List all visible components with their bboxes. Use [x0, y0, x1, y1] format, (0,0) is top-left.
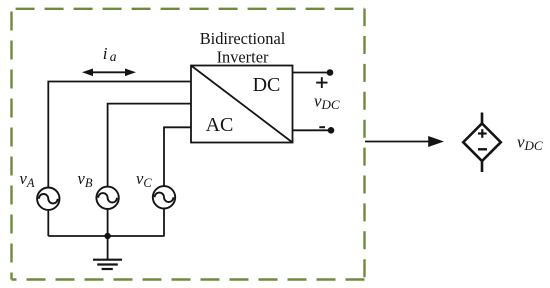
wire below source C: [163, 209, 165, 237]
inverter U1 diagonal: [191, 66, 293, 143]
current arrow i_a (double headed): [82, 69, 136, 77]
microgrid boundary dashed box : right edge: [363, 9, 365, 280]
junction node: [104, 233, 110, 239]
arrow from microgrid to equivalent source: [365, 136, 444, 147]
wire below source B: [107, 209, 109, 236]
wire phase B: [108, 104, 191, 187]
label - inside diamond: [478, 148, 487, 150]
source v_B circle: [96, 187, 118, 209]
svg-text:AC: AC: [206, 114, 234, 136]
svg-text:vDC: vDC: [517, 133, 543, 154]
dependent source v_DC diamond: [463, 113, 501, 173]
ground stem: [107, 236, 109, 260]
microgrid boundary dashed box : top edge: [12, 8, 365, 10]
svg-text:vDC: vDC: [314, 92, 340, 113]
node DC+ terminal: [327, 69, 334, 76]
wire DC- output: [293, 129, 332, 131]
inverter U1 box: [191, 66, 293, 143]
label: Bidirectional Inverter: [200, 29, 286, 66]
wire phase C: [164, 127, 191, 186]
label -: [319, 126, 325, 128]
svg-text:vA: vA: [20, 169, 35, 190]
svg-text:vC: vC: [136, 169, 152, 190]
svg-text:DC: DC: [253, 74, 281, 96]
label + inside diamond: [478, 129, 487, 138]
microgrid boundary dashed box : left edge: [10, 9, 12, 280]
wire DC+ output: [293, 72, 331, 74]
svg-text:a: a: [110, 49, 117, 64]
microgrid boundary dashed box : bottom edge: [12, 278, 365, 280]
ground symbol bars: [93, 260, 122, 269]
svg-text:Bidirectional: Bidirectional: [200, 29, 286, 48]
label +: [316, 77, 327, 88]
node DC- terminal: [328, 127, 335, 134]
neutral bus wire: [48, 235, 164, 237]
source v_A circle: [37, 188, 59, 210]
svg-text:i: i: [103, 44, 108, 63]
wire phase A: [48, 82, 191, 188]
source v_C circle: [153, 186, 175, 208]
svg-text:Inverter: Inverter: [217, 47, 269, 66]
svg-text:vB: vB: [78, 169, 93, 190]
wire below source A: [47, 210, 49, 236]
